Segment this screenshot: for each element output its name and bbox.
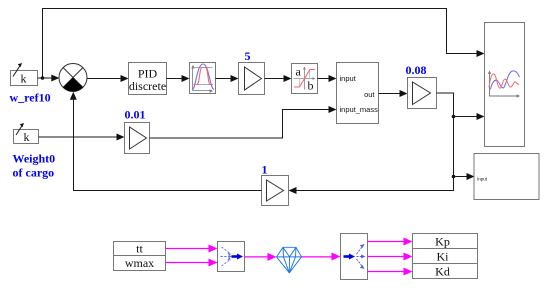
subsystem block (input / out / input_mass) [337,63,379,124]
svg-text:a: a [296,65,302,79]
node: junction on w_ref10 output [41,76,45,80]
wire: fuzzy controller to demux [302,256,334,258]
saturation block a b [292,64,318,94]
gain G001 (value 0.01) [125,123,150,154]
svg-text:input_mass: input_mass [340,105,379,114]
sum block [59,64,87,92]
wire: saturation to subsystem input [318,78,331,80]
gain G1 (value 1, flipped) [262,176,289,206]
svg-text:0.08: 0.08 [406,63,427,77]
wire: gain 0.01 to subsystem input_mass [150,110,331,139]
svg-text:Ki: Ki [437,250,450,264]
wire: sum to PID [87,78,123,80]
wire: saturation dynamic to gain 5 [216,78,233,80]
Input display block [474,154,539,200]
wire: tt to mux [166,248,211,250]
node: junction to Input block [452,175,456,179]
wire: demux to Kp [368,241,406,243]
slider gain K2 (Weight0 of cargo) [14,123,39,144]
fuzzy logic controller (gem) [277,247,302,272]
PID discrete block [129,63,167,95]
mux block [218,242,245,272]
svg-text:k: k [21,72,27,86]
wire: K2 to gain 0.01 [39,136,119,138]
svg-text:k: k [24,130,30,144]
wire: subsystem out to gain 0.08 [379,93,402,95]
svg-text:of cargo: of cargo [13,166,55,180]
svg-text:b: b [308,79,314,93]
slider gain K1 (w_ref10) [11,63,38,86]
svg-text:discrete: discrete [129,79,166,93]
svg-text:Kp: Kp [435,235,450,249]
svg-text:out: out [364,90,375,99]
wire: demux to Kd [368,271,406,273]
svg-text:tt: tt [136,242,143,256]
saturation dynamic block [190,63,216,94]
node: junction to scope input 2 [452,115,456,119]
demux block [341,234,368,280]
scope block [485,23,525,147]
wire: top feedback from w_ref10 tap to scope input 1 [43,9,479,77]
svg-text:1: 1 [262,163,268,177]
wire: gain 0.08 output down to scope input 2 and feedback [294,93,454,191]
svg-text:0.01: 0.01 [125,108,146,122]
wire: demux to Ki [368,256,406,258]
constant block tt [114,242,166,256]
wire: wmax to mux [166,262,211,264]
wire: mux to fuzzy controller [245,256,270,258]
gain G008 (value 0.08) [408,78,437,109]
constant block wmax [114,256,166,271]
wire: PID to saturation dynamic [167,78,184,80]
svg-text:5: 5 [245,49,251,63]
svg-text:Kd: Kd [435,265,450,279]
display block Kd [413,264,478,279]
svg-text:Weight0: Weight0 [13,152,56,166]
display block Kp [413,234,478,249]
svg-text:w_ref10: w_ref10 [10,91,51,105]
wire: gain 1 output feedback to sum bottom [74,96,262,191]
svg-text:Input: Input [477,177,488,182]
wire: K1 to sum [38,77,54,79]
wire arrowhead into scope input 1 [477,50,485,57]
wire: branch to Input block [454,176,469,178]
wire arrowhead into gain 1 (points left) [289,187,297,194]
wire: gain 5 to saturation [265,78,286,80]
gain G5 (value 5) [239,63,265,95]
wire: branch to scope input 2 [454,116,479,118]
display block Ki [413,249,478,264]
svg-text:wmax: wmax [125,256,154,270]
svg-text:input: input [340,74,357,83]
